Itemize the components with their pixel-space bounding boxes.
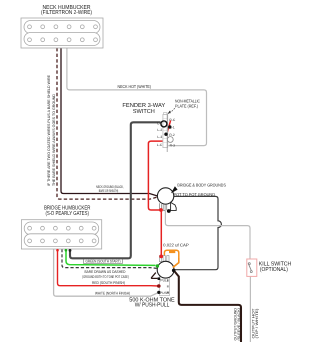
svg-text:POT TO POT GROUND: POT TO POT GROUND bbox=[174, 192, 216, 197]
svg-text:L-3: L-3 bbox=[157, 135, 162, 139]
svg-text:BRIDGE & BODY GROUNDS: BRIDGE & BODY GROUNDS bbox=[177, 182, 226, 187]
svg-text:BARE DRAWN AS DASHED: BARE DRAWN AS DASHED bbox=[85, 270, 126, 274]
svg-text:NECK HOT (WHITE): NECK HOT (WHITE) bbox=[118, 84, 152, 89]
svg-text:(GROUND BOTH TO TONE POT CASE): (GROUND BOTH TO TONE POT CASE) bbox=[82, 275, 129, 279]
svg-text:PLATE (REF.): PLATE (REF.) bbox=[175, 104, 199, 109]
svg-text:IF THERE ARE TWO COATED WIRES: IF THERE ARE TWO COATED WIRES PLUS A BAR… bbox=[47, 74, 51, 186]
svg-text:L-2: L-2 bbox=[157, 128, 162, 132]
svg-text:BARE OR SHEATH): BARE OR SHEATH) bbox=[99, 189, 119, 193]
svg-text:(FILTERTRON 2-WIRE): (FILTERTRON 2-WIRE) bbox=[41, 9, 92, 16]
svg-text:(S-D PEARLY GATES): (S-D PEARLY GATES) bbox=[45, 210, 89, 217]
svg-text:(TIP / WHITE): (TIP / WHITE) bbox=[255, 309, 259, 339]
svg-text:GREEN (SOUTH START): GREEN (SOUTH START) bbox=[86, 260, 122, 264]
svg-text:PULL: PULL bbox=[160, 278, 168, 282]
svg-text:R-C: R-C bbox=[169, 118, 175, 122]
svg-text:W/ PUSH-PULL: W/ PUSH-PULL bbox=[135, 301, 170, 308]
svg-text:WHITE (NORTH FINISH): WHITE (NORTH FINISH) bbox=[95, 291, 131, 295]
svg-text:(SLEEVE / BLACK): (SLEEVE / BLACK) bbox=[237, 308, 241, 341]
svg-text:R-1: R-1 bbox=[169, 125, 174, 129]
svg-text:0.022 uf CAP: 0.022 uf CAP bbox=[163, 243, 189, 248]
svg-text:L-1: L-1 bbox=[157, 122, 162, 126]
svg-text:(OPTIONAL): (OPTIONAL) bbox=[260, 266, 288, 273]
svg-text:RED (SOUTH FINISH): RED (SOUTH FINISH) bbox=[92, 281, 126, 285]
svg-text:SWITCH: SWITCH bbox=[133, 108, 155, 115]
svg-text:L-C: L-C bbox=[157, 143, 163, 147]
svg-text:THE BARE SHIELD WIRE ALWAYS GO: THE BARE SHIELD WIRE ALWAYS GOES TO GROU… bbox=[52, 94, 56, 186]
svg-text:PUSH: PUSH bbox=[160, 291, 170, 295]
svg-text:R-3: R-3 bbox=[170, 144, 175, 148]
svg-text:R-2: R-2 bbox=[169, 133, 174, 137]
